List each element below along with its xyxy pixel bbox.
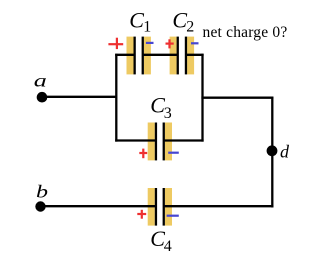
- wire: series link C1 to C2: [143, 54, 178, 56]
- svg-text:d: d: [280, 142, 290, 162]
- charge mark: C1 plus: [108, 38, 123, 49]
- label C2: [172, 8, 194, 36]
- charge mark: C4 minus: [167, 215, 179, 217]
- svg-text:net charge 0?: net charge 0?: [203, 24, 288, 41]
- svg-text:2: 2: [186, 19, 194, 36]
- wire: left vertical of parallel box: [115, 54, 117, 142]
- svg-text:C: C: [129, 8, 144, 33]
- svg-text:a: a: [34, 71, 47, 91]
- charge mark: C3 plus: [139, 149, 147, 159]
- wire: bottom wire b to C4: [41, 205, 157, 207]
- wire: C3 branch left segment: [115, 139, 156, 141]
- capacitor C1 dielectric bands: [127, 37, 151, 75]
- svg-text:C: C: [172, 8, 187, 33]
- wire: top branch right segment from C2: [186, 54, 204, 56]
- charge mark: C3 minus: [168, 152, 179, 154]
- wire: right vertical of parallel box: [201, 54, 203, 142]
- capacitor C3 dielectric bands: [148, 123, 172, 161]
- svg-text:4: 4: [164, 238, 172, 255]
- wire: bottom wire C4 to right rail: [164, 205, 274, 207]
- charge mark: C2 plus: [166, 39, 174, 48]
- capacitor C1 plates: [134, 37, 144, 75]
- node terminal b: [35, 201, 45, 211]
- wire: top branch left segment to C1: [115, 54, 134, 56]
- capacitor C4 plates: [155, 188, 165, 226]
- node d junction: [267, 145, 278, 156]
- label C3: [150, 93, 172, 123]
- label C1: [129, 8, 151, 36]
- wire: right rail vertical through node d: [271, 97, 273, 208]
- label C4: [150, 226, 172, 255]
- svg-text:b: b: [36, 182, 48, 202]
- svg-text:1: 1: [143, 19, 151, 36]
- wire: middle horizontal to right rail: [201, 97, 273, 99]
- node terminal a: [37, 92, 48, 103]
- capacitor C3 plates: [155, 123, 165, 161]
- svg-text:3: 3: [164, 105, 172, 122]
- capacitor C2 plates: [177, 37, 188, 75]
- wire: C3 branch right segment: [164, 139, 204, 141]
- charge mark: C4 plus: [137, 210, 146, 219]
- capacitor C4 dielectric bands: [148, 188, 172, 226]
- capacitor C2 dielectric bands: [170, 37, 195, 75]
- wire: terminal a to left vertical: [42, 96, 116, 98]
- charge mark: C1 minus: [146, 42, 154, 44]
- charge mark: C2 minus: [191, 42, 199, 44]
